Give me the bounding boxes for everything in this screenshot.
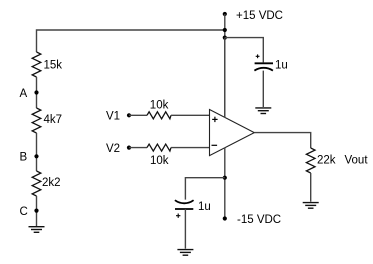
wire 22k to ground (310, 173, 312, 202)
capacitor C2 1u (bottom, polarized) (175, 200, 194, 209)
svg-text:10k: 10k (150, 100, 169, 112)
ground under 22k (303, 203, 319, 209)
wire R10k to op-amp - input (171, 147, 210, 149)
resistor R 2k2 (32, 171, 41, 196)
node B (34, 154, 38, 158)
plus sign C1 (256, 54, 260, 58)
wire R10k to op-amp + input (171, 114, 210, 116)
resistor R 10k bottom (147, 144, 171, 151)
resistor R 10k top (147, 112, 171, 119)
svg-text:15k: 15k (44, 59, 63, 71)
junction cap branch on -15V line (223, 176, 227, 180)
wire C1 to ground (262, 71, 264, 107)
junction cap branch on +15V line (223, 36, 227, 40)
-15 VDC terminal dot (223, 216, 227, 220)
ground under C2 (177, 250, 193, 256)
wire op-amp output (254, 133, 310, 148)
op-amp U1 (210, 110, 255, 156)
svg-text:1u: 1u (275, 60, 288, 72)
svg-text:A: A (20, 88, 28, 100)
svg-text:-15 VDC: -15 VDC (237, 214, 281, 226)
resistor R 4k7 (32, 108, 41, 133)
resistor R 15k (32, 52, 41, 77)
svg-text:C: C (20, 206, 28, 218)
svg-text:V1: V1 (106, 111, 120, 123)
wire +15V vertical supply (224, 14, 226, 118)
+15 VDC terminal dot (223, 12, 227, 16)
wire op-amp V- power pin down to -15 terminal (224, 148, 226, 219)
svg-text:V2: V2 (106, 143, 120, 155)
junction top-rail on +15V line (223, 28, 227, 32)
node C (34, 209, 38, 213)
svg-text:B: B (20, 152, 28, 164)
wire V2 to R10k (129, 147, 147, 149)
svg-text:22k: 22k (317, 154, 336, 166)
wire top rail from left divider to +15V rail (37, 30, 225, 52)
node A (34, 90, 38, 94)
svg-text:1u: 1u (198, 201, 211, 213)
wire 4k7 to 2k2 (36, 133, 38, 171)
wire C2 to ground (184, 209, 186, 249)
ground under C1 (255, 108, 271, 114)
terminal dot V1 (127, 113, 131, 117)
resistor R 22k (306, 148, 315, 173)
wire op-amp V+ power pin (224, 38, 226, 118)
capacitor C1 1u (top, polarized) (254, 63, 273, 70)
svg-text:2k2: 2k2 (42, 177, 61, 189)
op-amp + input sign (212, 118, 217, 120)
wire 15k to 4k7 (36, 77, 38, 108)
wire +15V to capacitor C1 (225, 38, 263, 63)
wire -15V line to capacitor C2 (185, 178, 224, 200)
terminal dot V2 (127, 146, 131, 150)
wire 2k2 to ground (36, 196, 38, 226)
svg-text:Vout: Vout (345, 154, 369, 166)
wire V1 to R10k (129, 114, 147, 116)
op-amp - input sign (212, 144, 218, 146)
svg-text:10k: 10k (150, 155, 169, 167)
plus sign C2 (176, 214, 180, 218)
ground left (29, 227, 45, 233)
svg-text:4k7: 4k7 (44, 114, 63, 126)
svg-text:+15 VDC: +15 VDC (236, 10, 283, 22)
